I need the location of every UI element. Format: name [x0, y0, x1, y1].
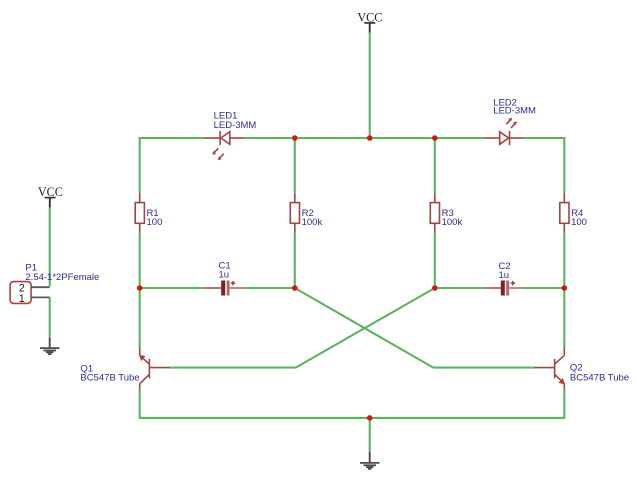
wire C1 to node B [244, 287, 294, 289]
ground (bottom center) [360, 452, 379, 469]
svg-text:100k: 100k [302, 217, 323, 228]
wire rail3 upper [434, 138, 436, 193]
svg-text:100: 100 [571, 217, 587, 228]
wire top rail right segment [524, 137, 565, 139]
resistor R2 [290, 193, 322, 233]
wire left rail upper [139, 137, 141, 193]
svg-text:LED-3MM: LED-3MM [214, 120, 257, 131]
resistor R1 [135, 193, 162, 233]
junction node bottom rail / ground [367, 415, 373, 421]
svg-text:1u: 1u [499, 270, 510, 281]
wire right rail R4 to mid [563, 233, 565, 289]
wire top rail left segment [139, 137, 205, 139]
led LED1 [205, 110, 257, 160]
wire node C to C2 [435, 287, 484, 289]
wire right rail mid to Q2 [563, 288, 565, 348]
wire VCC drop to top rail [369, 33, 371, 138]
wire rail2 R2 to mid [294, 233, 296, 289]
svg-text:BC547B Tube: BC547B Tube [570, 373, 629, 384]
wire left VCC to P1 pin2 [49, 208, 51, 287]
wire rail2 upper [294, 138, 296, 193]
wire cross diagonal node C to Q1 base [296, 288, 435, 368]
power flag VCC (top) [357, 10, 382, 32]
wire bottom rail [140, 417, 565, 419]
wire C2 to right rail [524, 287, 565, 289]
wire left rail R1 to mid [139, 233, 141, 289]
junction node mid / R1 C1 [137, 285, 143, 291]
svg-text:1: 1 [19, 293, 25, 305]
led LED2 [484, 97, 536, 145]
resistor R4 [560, 193, 587, 233]
wire ground drop [369, 418, 371, 452]
junction node mid / R2 C1 cross [292, 285, 298, 291]
resistor R3 [430, 193, 462, 233]
svg-text:2.54-1*2PFemale: 2.54-1*2PFemale [25, 272, 99, 283]
wire cross diagonal node B to Q2 base [295, 288, 434, 368]
svg-text:1u: 1u [219, 270, 230, 281]
svg-text:100: 100 [147, 217, 163, 228]
junction node top rail / VCC [367, 135, 373, 141]
wire Q2 emitter to bottom rail [563, 388, 565, 419]
pin 1 lead [31, 296, 50, 298]
wire Q2 base horizontal [433, 367, 534, 369]
junction node top rail / R3 [432, 135, 438, 141]
wire mid-left to C1 [140, 287, 204, 289]
svg-text:100k: 100k [442, 217, 463, 228]
wire top rail middle segment [245, 137, 485, 139]
svg-text:BC547B Tube: BC547B Tube [80, 373, 139, 384]
wire right rail upper [563, 137, 565, 193]
wire Q1 emitter to bottom rail [139, 388, 141, 419]
junction node mid / R4 C2 [562, 285, 568, 291]
wire left rail mid to Q1 [139, 288, 141, 348]
svg-text:LED-3MM: LED-3MM [493, 106, 536, 117]
capacitor C1 [204, 260, 245, 295]
wire rail3 R3 to mid [434, 233, 436, 289]
wire P1 pin1 to left ground [49, 297, 51, 337]
transistor Q1 [80, 348, 169, 389]
junction node top rail / R2 [292, 135, 298, 141]
ground (left) [40, 338, 59, 354]
pin 2 lead [31, 286, 50, 288]
connector P1 [10, 262, 99, 305]
transistor Q2 [534, 348, 629, 389]
svg-text:VCC: VCC [38, 185, 63, 199]
junction node mid / R3 C2 cross [432, 285, 438, 291]
capacitor C2 [484, 261, 524, 296]
power flag VCC (left) [38, 185, 63, 208]
wire Q1 base horizontal [170, 367, 296, 369]
